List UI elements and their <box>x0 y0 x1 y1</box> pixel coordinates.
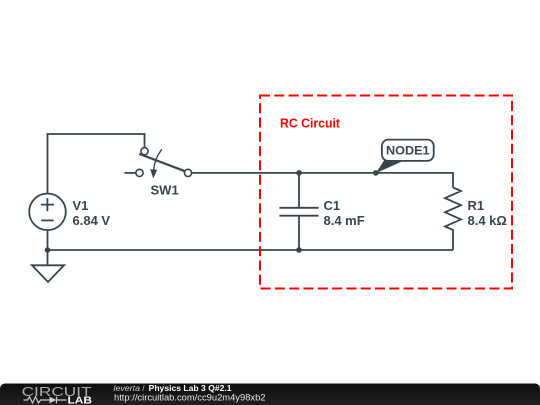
node junction NODE1 <box>373 170 379 176</box>
wire: switch to resistor top corner <box>192 173 453 188</box>
resistor R1 <box>445 188 461 251</box>
svg-text:C1: C1 <box>324 198 341 213</box>
wire: V1 top to switch pole <box>48 134 145 194</box>
svg-text:LAB: LAB <box>68 395 93 405</box>
svg-text:NODE1: NODE1 <box>386 144 430 158</box>
svg-text:R1: R1 <box>468 198 485 213</box>
wire: bottom rail <box>48 249 454 251</box>
ground <box>32 250 64 282</box>
svg-text:6.84 V: 6.84 V <box>73 213 111 228</box>
node junction: capacitor top <box>296 170 302 176</box>
svg-text:8.4 mF: 8.4 mF <box>324 213 365 228</box>
logo squiggle wire with resistor <box>24 397 50 403</box>
svg-text:SW1: SW1 <box>151 182 179 197</box>
switch SW1 <box>125 148 192 179</box>
svg-text:V1: V1 <box>73 198 89 213</box>
node junction: capacitor bottom <box>296 247 302 253</box>
wire: V1 bottom to ground node <box>47 230 49 250</box>
NODE1 callout box <box>382 140 434 161</box>
capacitor C1 <box>279 173 318 250</box>
NODE1 callout tail <box>376 161 403 174</box>
voltage source V1 <box>29 194 66 231</box>
logo diode <box>50 397 57 404</box>
svg-text:RC Circuit: RC Circuit <box>280 115 341 130</box>
svg-text:http://circuitlab.com/cc9u2m4y: http://circuitlab.com/cc9u2m4y98xb2 <box>114 393 266 404</box>
svg-text:8.4 kΩ: 8.4 kΩ <box>468 213 507 228</box>
node junction at V1 bottom <box>45 247 51 253</box>
RC Circuit boundary box <box>260 96 512 289</box>
